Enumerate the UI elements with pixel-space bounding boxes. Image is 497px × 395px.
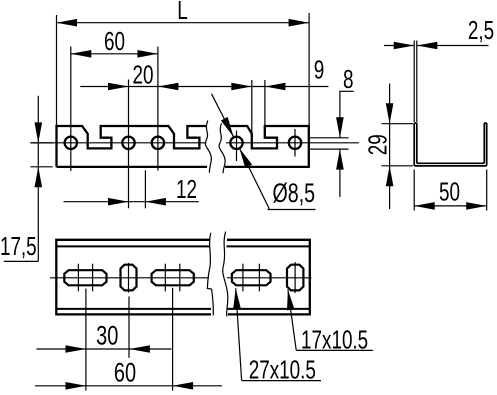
hole 1 — [65, 137, 77, 149]
svg-text:8: 8 — [343, 65, 354, 93]
break line right (top view) — [219, 123, 225, 173]
profile side view outline left of break — [57, 126, 207, 167]
break line left (plan view) — [207, 233, 213, 316]
svg-text:L: L — [177, 0, 188, 25]
dim 29 text — [364, 134, 392, 155]
dim 9 extension right — [264, 80, 266, 128]
dim 50 extension lines — [414, 170, 487, 211]
dim 8 upper arrow — [336, 91, 344, 138]
dim 60 bottom line — [35, 382, 222, 390]
dim 8 extension lines — [309, 138, 349, 149]
svg-text:60: 60 — [114, 358, 136, 389]
dim 20 text — [133, 61, 154, 89]
slot 4 arc center marks — [243, 264, 260, 292]
svg-text:20: 20 — [133, 61, 154, 89]
hole 1 crosshair / dim 60 extension — [70, 47, 72, 171]
slot 27x10.5 third — [232, 270, 271, 285]
slot 27x10.5 first — [64, 270, 106, 285]
section wall top caps — [414, 122, 487, 124]
dim 20-9 shared line — [80, 83, 328, 91]
plan view outline right — [227, 240, 310, 315]
dim 29 line — [386, 84, 394, 210]
dim 60 line — [71, 50, 158, 58]
dim L extension right — [308, 13, 310, 125]
label 27x10.5 leader — [233, 288, 321, 380]
dim 50 line — [414, 202, 487, 210]
dim L text — [177, 0, 188, 25]
svg-text:Ø8,5: Ø8,5 — [273, 178, 315, 208]
slot 17x10.5 middle first — [121, 265, 137, 291]
slot 5 vertical centerline — [294, 262, 296, 293]
dim 2,5 extension lines — [414, 41, 417, 123]
dim 8 text — [343, 65, 354, 93]
hole 2 — [122, 137, 134, 149]
svg-text:30: 30 — [96, 321, 118, 352]
dim 12 line — [64, 198, 199, 206]
break line left (top view) — [205, 121, 211, 173]
dim 12 text — [176, 175, 197, 203]
profile side view outline right of break — [225, 126, 309, 167]
hole 3 crosshair / dim 60 extension — [157, 47, 159, 171]
hole diameter leader upper — [212, 94, 234, 137]
dim 17,5 horizontal tail — [4, 260, 39, 262]
slot 17x10.5 middle second — [287, 265, 303, 291]
dim 17,5 extension lines — [30, 143, 52, 167]
dim 29 extension lines — [382, 124, 414, 166]
break line right (plan view) — [223, 232, 228, 317]
slot 3 arc center marks — [165, 264, 180, 292]
svg-text:9: 9 — [314, 56, 325, 84]
dim L line — [57, 19, 310, 27]
plan view fold line bottom — [56, 308, 309, 310]
plan view centerline — [50, 277, 312, 279]
hole 4 crosshair — [236, 131, 238, 161]
label 17x10.5 leader — [287, 290, 373, 351]
dim diameter 8,5 underline — [268, 209, 316, 211]
svg-text:27x10.5: 27x10.5 — [249, 356, 316, 384]
section outer outline — [414, 123, 487, 166]
dim 17,5 vertical line — [35, 96, 43, 262]
dim 2,5 line — [384, 42, 489, 50]
slot 1 arc center marks — [78, 264, 92, 292]
dim 2,5 text — [468, 16, 494, 44]
svg-text:2,5: 2,5 — [468, 16, 494, 44]
svg-text:50: 50 — [439, 178, 460, 206]
hole 5 crosshair — [294, 129, 296, 157]
hole 2 crosshair / dim 20-12 extension — [128, 80, 130, 209]
label 17x10.5 text — [301, 326, 368, 354]
profile side view bottom edge left of break — [57, 166, 208, 168]
dim diameter 8,5 text — [273, 178, 315, 208]
dim 17,5 text — [0, 232, 37, 260]
dim 50 text — [439, 178, 460, 206]
slot 1 center extension — [85, 289, 87, 391]
dim 60 text — [104, 27, 125, 55]
hole 5 — [289, 137, 301, 149]
slot 3 center extension — [172, 288, 174, 391]
hole 4 — [230, 137, 242, 149]
dim 9 text — [314, 56, 325, 84]
hole 3 — [152, 137, 164, 149]
section inner outline — [417, 123, 485, 163]
svg-text:12: 12 — [176, 175, 197, 203]
label 27x10.5 text — [249, 356, 316, 384]
dim 8 leader underline — [339, 90, 353, 92]
dim 60 bottom text — [114, 358, 136, 389]
svg-text:29: 29 — [364, 134, 392, 155]
hole diameter leader lower — [239, 148, 269, 209]
plan view fold line top — [56, 245, 309, 247]
profile centerline — [30, 142, 359, 144]
dim 30 line — [37, 345, 172, 353]
svg-text:60: 60 — [104, 27, 125, 55]
svg-text:17x10.5: 17x10.5 — [301, 326, 368, 354]
dim 8 lower arrow — [336, 149, 344, 197]
dim 9 extension left — [251, 80, 253, 133]
dim L extension left — [56, 15, 58, 126]
dim 30 text — [96, 321, 118, 352]
slot 27x10.5 second — [152, 270, 194, 285]
svg-text:17,5: 17,5 — [0, 232, 37, 260]
dim 12 extension — [144, 170, 146, 208]
plan view outline left — [56, 240, 211, 315]
slot 2 vertical centerline — [128, 263, 131, 358]
